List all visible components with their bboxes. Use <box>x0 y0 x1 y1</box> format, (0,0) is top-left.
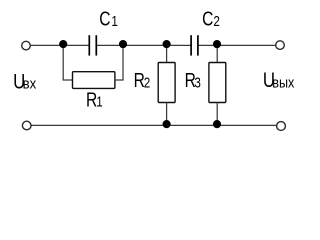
node junction dot 4 <box>213 40 221 48</box>
svg-text:2: 2 <box>144 74 151 91</box>
svg-text:C: C <box>99 8 110 30</box>
label U output <box>263 70 295 93</box>
node junction dot 1 <box>59 40 67 48</box>
svg-text:вых: вых <box>272 73 294 90</box>
resistor R1 <box>73 72 115 89</box>
svg-text:вх: вх <box>23 74 37 91</box>
wire R2 top lead <box>166 45 168 63</box>
resistor R3 <box>209 63 226 103</box>
capacitor C2 <box>191 35 198 55</box>
svg-text:1: 1 <box>96 93 103 110</box>
wire top rail right segment <box>198 44 275 46</box>
terminal output bottom <box>277 122 286 131</box>
label C1 <box>99 8 118 30</box>
node junction dot 5 <box>163 120 171 128</box>
label R1 <box>86 89 103 111</box>
svg-text:C: C <box>202 8 213 30</box>
capacitor C1 <box>89 35 96 55</box>
resistor R2 <box>158 63 175 103</box>
terminal input bottom <box>22 121 31 130</box>
wire bottom rail <box>31 124 276 126</box>
wire R1 right lead <box>115 79 124 81</box>
wire R3 bottom lead <box>216 103 218 126</box>
node junction dot 3 <box>163 40 171 48</box>
wire R1 left lead <box>63 79 73 81</box>
label R2 <box>134 69 151 91</box>
terminal input top <box>22 41 31 50</box>
node junction dot 6 <box>213 120 221 128</box>
node junction dot 2 <box>119 40 127 48</box>
svg-text:2: 2 <box>213 12 220 29</box>
terminal output top <box>276 41 285 50</box>
label R3 <box>185 69 201 91</box>
wire R1 left vertical <box>62 45 64 81</box>
wire top rail middle segment <box>97 44 191 46</box>
wire R2 bottom lead <box>166 103 168 126</box>
svg-text:3: 3 <box>194 74 201 91</box>
wire R3 top lead <box>216 45 218 63</box>
svg-text:1: 1 <box>111 12 118 29</box>
wire top rail left segment <box>31 44 89 46</box>
label U input <box>13 71 36 94</box>
label C2 <box>202 8 220 30</box>
wire R1 right vertical <box>122 45 124 81</box>
